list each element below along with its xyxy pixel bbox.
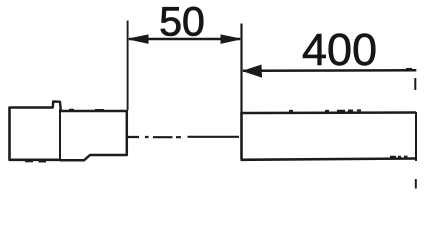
dimension extension line at cable start xyxy=(240,24,242,113)
dimension text 50 xyxy=(161,7,203,36)
connector internal separator line xyxy=(59,109,61,160)
cable top edge xyxy=(241,111,416,114)
scan marks on cable top edge xyxy=(289,109,361,112)
cable bottom edge xyxy=(241,159,417,160)
dimension text 400 xyxy=(303,34,375,66)
cable break dashed line lower xyxy=(415,179,417,189)
small ridge on connector top edge xyxy=(69,109,104,111)
connector body left section xyxy=(10,108,61,160)
cable right end edge xyxy=(415,112,417,161)
cable center line (dash-dot) xyxy=(128,136,240,139)
dimension line 50 xyxy=(129,38,240,41)
connector latch bump xyxy=(53,102,61,112)
arrowhead right of 50 dimension xyxy=(221,35,241,43)
dimension extension line at connector right edge xyxy=(127,21,129,111)
dimension line 400 xyxy=(243,69,416,72)
arrowhead left of 400 dimension xyxy=(244,65,262,77)
cable break dashed line upper xyxy=(414,78,416,90)
scan marks on cable bottom edge xyxy=(390,156,408,158)
small tabs under connector bottom edge xyxy=(25,160,46,162)
scan tick at right end of 400 dimension line xyxy=(406,68,412,70)
arrowhead left of 50 dimension xyxy=(129,35,149,43)
connector body right section xyxy=(60,111,127,160)
cable left edge xyxy=(240,112,243,159)
